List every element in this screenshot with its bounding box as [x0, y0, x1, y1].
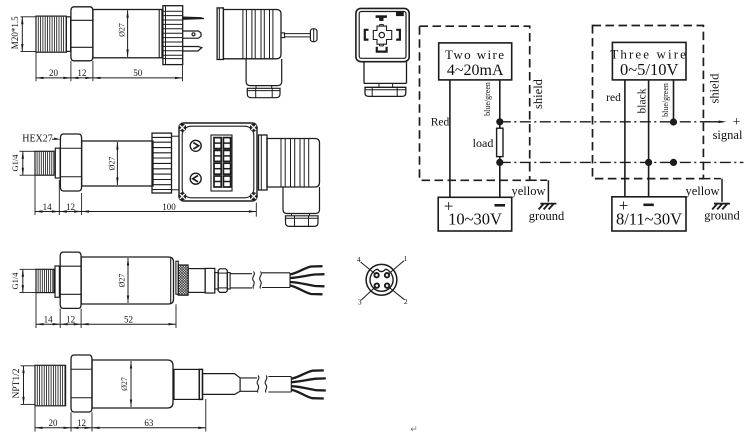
- svg-text:12: 12: [66, 315, 75, 325]
- svg-text:0~5/10V: 0~5/10V: [620, 60, 679, 79]
- svg-text:Two wire: Two wire: [445, 47, 505, 62]
- svg-text:Red: Red: [431, 117, 450, 129]
- svg-text:G1/4: G1/4: [10, 272, 20, 290]
- svg-text:HEX27: HEX27: [22, 134, 53, 145]
- svg-text:shield: shield: [531, 78, 545, 109]
- svg-text:load: load: [473, 136, 494, 150]
- svg-text:G1/4: G1/4: [10, 154, 20, 172]
- svg-text:ground: ground: [529, 209, 565, 223]
- svg-text:black: black: [636, 88, 648, 113]
- svg-text:2: 2: [404, 297, 408, 306]
- svg-text:M20*1.5: M20*1.5: [10, 16, 20, 49]
- svg-text:3: 3: [358, 298, 362, 307]
- svg-text:12: 12: [77, 68, 86, 78]
- svg-text:yellow: yellow: [511, 184, 545, 198]
- svg-text:4: 4: [357, 255, 361, 264]
- svg-text:1: 1: [404, 254, 408, 263]
- svg-text:14: 14: [44, 315, 54, 325]
- svg-text:20: 20: [49, 68, 59, 78]
- svg-text:NPT1/2: NPT1/2: [12, 368, 22, 398]
- svg-text:blue/green: blue/green: [661, 83, 670, 117]
- svg-text:4~20mA: 4~20mA: [447, 62, 504, 79]
- svg-text:52: 52: [124, 315, 133, 325]
- svg-text:10~30V: 10~30V: [448, 210, 502, 229]
- svg-text:20: 20: [49, 418, 59, 428]
- svg-text:red: red: [606, 92, 621, 104]
- svg-text:12: 12: [77, 418, 86, 428]
- svg-text:signal: signal: [713, 128, 743, 142]
- svg-text:Ø27: Ø27: [118, 274, 127, 288]
- svg-text:Ø27: Ø27: [107, 157, 116, 171]
- svg-text:8/11~30V: 8/11~30V: [616, 210, 682, 229]
- svg-text:blue/green: blue/green: [483, 82, 492, 116]
- svg-text:ground: ground: [704, 209, 740, 223]
- svg-text:shield: shield: [708, 73, 722, 104]
- svg-text:yellow: yellow: [685, 184, 719, 198]
- svg-text:Ø27: Ø27: [118, 23, 127, 37]
- svg-text:Ø27: Ø27: [120, 377, 129, 391]
- svg-text:50: 50: [133, 68, 143, 78]
- svg-text:12: 12: [66, 202, 75, 212]
- svg-text:100: 100: [162, 202, 176, 212]
- svg-text:14: 14: [43, 202, 53, 212]
- svg-text:↵: ↵: [410, 424, 418, 434]
- svg-text:63: 63: [144, 418, 154, 428]
